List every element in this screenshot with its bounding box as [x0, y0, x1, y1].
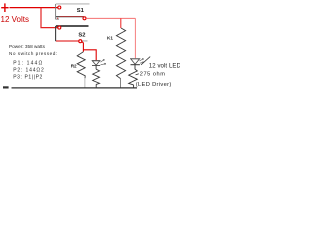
svg-text:12 Volts: 12 Volts: [1, 15, 29, 24]
svg-text:12 volt LED: 12 volt LED: [149, 63, 180, 69]
minus terminal of supply: [3, 86, 9, 88]
svg-text:P2: 144Ω2: P2: 144Ω2: [13, 67, 44, 73]
svg-text:(LED Driver): (LED Driver): [136, 82, 172, 88]
resistor R3 zigzag below LED1: [93, 69, 100, 84]
svg-text:P1: 144Ω: P1: 144Ω: [13, 60, 43, 66]
LED1 emission arrow 2: [101, 63, 106, 64]
LED1 emission arrow 1: [100, 60, 104, 63]
svg-text:No switch pressed:: No switch pressed:: [9, 51, 58, 56]
wire: + to S1 left terminal: [10, 7, 58, 9]
pointer line to label 2N5330: [136, 74, 139, 75]
switch S1 box: top border: [56, 3, 90, 5]
wire: branch down to S2 left terminal: [41, 8, 58, 28]
LED2 triangle: [131, 59, 140, 64]
switch S1 lever line: [56, 16, 84, 18]
switch S1 box: left border: [55, 4, 57, 19]
svg-text:Power: 358 watts: Power: 358 watts: [9, 44, 46, 49]
switch S2 right terminal: [79, 40, 82, 43]
note text block: [9, 44, 58, 81]
red dot near stub: [57, 17, 58, 19]
LED2 emission arrow 1: [140, 59, 144, 61]
switch S2 left terminal: [58, 26, 61, 29]
switch S1 box: bottom-left stub: [56, 18, 59, 20]
svg-text:P3: P1||P2: P3: P1||P2: [13, 74, 43, 80]
svg-text:R2: R2: [71, 63, 77, 68]
switch S1 right terminal: [83, 17, 86, 20]
resistor K1 zigzag: [116, 28, 125, 79]
switch S2 lever red overlay: [56, 40, 79, 42]
resistor R2 zigzag: [77, 52, 85, 79]
wire: S2 terminal down to R2: [82, 42, 84, 52]
LED2 emission arrow 2: [140, 62, 144, 64]
switch S2 bottom border: [56, 40, 88, 42]
pointer line to label 12 volt LED: [141, 57, 150, 65]
svg-text:275 ohm: 275 ohm: [140, 72, 166, 78]
svg-text:S2: S2: [78, 33, 85, 39]
LED1 cathode lead: [95, 66, 97, 70]
LED1 cathode bar: [92, 65, 100, 67]
switch S1 left terminal: [58, 6, 61, 9]
LED1 triangle: [92, 61, 100, 65]
wire: drop to resistor K1: [120, 18, 122, 28]
LED driver bottom lead: [133, 85, 135, 88]
svg-text:S1: S1: [77, 8, 85, 14]
LED1 (middle) anode bar: [92, 60, 101, 62]
LED2 (right) anode bar: [130, 58, 140, 60]
LED2 cathode lead: [134, 65, 136, 69]
switch S2 box: top border: [56, 25, 89, 27]
svg-text:K1: K1: [107, 36, 113, 41]
wire: S1 terminal to top-right corner: [86, 17, 135, 19]
switch S1 lever red overlay: [60, 16, 84, 18]
switch S2 box: left border: [55, 26, 57, 41]
wire: drop to LED2: [134, 18, 136, 58]
resistor K1 bottom lead: [120, 79, 122, 88]
resistor R3 bottom lead: [95, 84, 97, 87]
plus terminal (+) of 12V supply: [1, 3, 8, 12]
resistor R2 bottom lead: [84, 78, 86, 88]
LED driver zigzag below LED2: [129, 69, 138, 85]
ground rail wire: [12, 87, 138, 89]
wire: tee to LED1: [83, 50, 96, 60]
LED2 cathode bar: [131, 64, 140, 66]
